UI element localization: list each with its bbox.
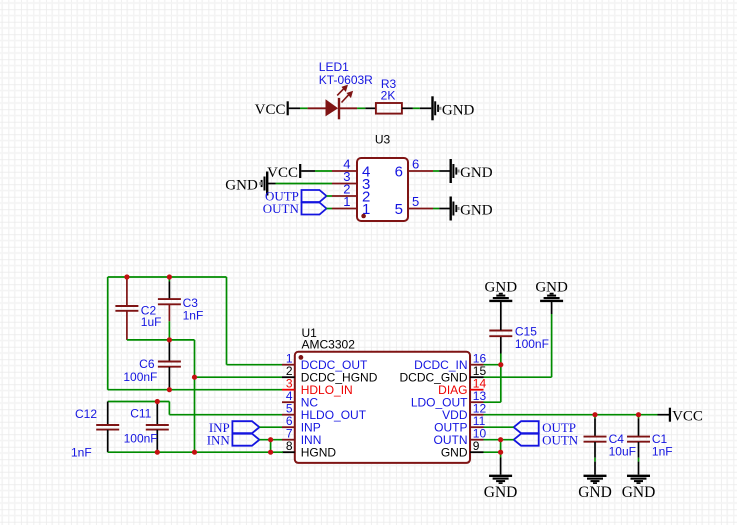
svg-text:1nF: 1nF [183, 308, 204, 322]
svg-text:GND: GND [535, 279, 568, 295]
svg-text:GND: GND [441, 445, 468, 459]
svg-text:6: 6 [395, 164, 403, 181]
svg-text:C12: C12 [75, 407, 97, 421]
svg-text:1nF: 1nF [652, 444, 673, 458]
svg-text:6: 6 [412, 157, 419, 172]
svg-text:GND: GND [484, 484, 518, 501]
svg-text:VCC: VCC [672, 409, 703, 425]
svg-text:5: 5 [395, 201, 403, 218]
svg-text:GND: GND [485, 279, 518, 295]
svg-text:2K: 2K [381, 89, 396, 103]
svg-text:VCC: VCC [255, 102, 286, 118]
svg-text:9: 9 [473, 439, 480, 453]
svg-text:100nF: 100nF [124, 431, 158, 445]
svg-text:VCC: VCC [267, 165, 298, 181]
svg-text:INN: INN [207, 432, 231, 447]
svg-text:GND: GND [578, 484, 612, 501]
svg-text:AMC3302: AMC3302 [302, 338, 356, 352]
svg-text:GND: GND [622, 484, 656, 501]
svg-text:GND: GND [225, 178, 258, 194]
svg-text:GND: GND [460, 203, 493, 219]
svg-text:C11: C11 [130, 407, 151, 421]
svg-text:GND: GND [460, 165, 493, 181]
svg-text:U3: U3 [375, 133, 391, 147]
svg-text:100nF: 100nF [515, 337, 549, 351]
svg-text:KT-0603R: KT-0603R [319, 73, 373, 87]
svg-text:1nF: 1nF [71, 446, 92, 460]
svg-text:OUTN: OUTN [542, 432, 579, 447]
svg-text:OUTN: OUTN [263, 201, 300, 216]
svg-text:GND: GND [442, 103, 475, 119]
svg-text:100nF: 100nF [123, 370, 157, 384]
svg-text:8: 8 [286, 439, 293, 453]
svg-text:10uF: 10uF [609, 444, 636, 458]
svg-text:5: 5 [412, 194, 419, 209]
svg-text:1: 1 [343, 194, 350, 209]
svg-text:HGND: HGND [301, 445, 337, 459]
svg-text:1uF: 1uF [141, 315, 162, 329]
